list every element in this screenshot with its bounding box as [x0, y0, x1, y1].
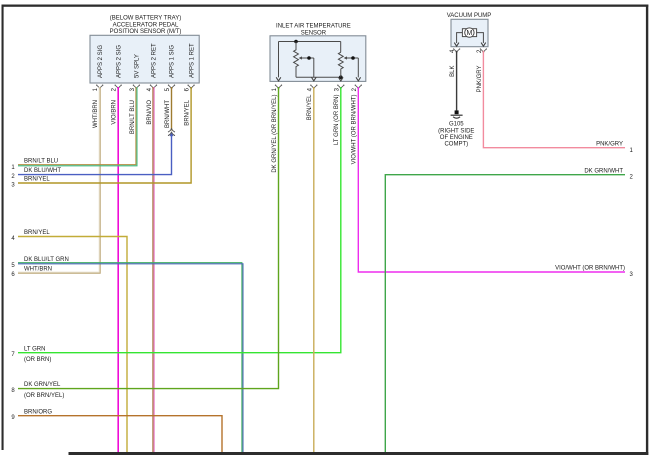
svg-text:APPS 1 SIG: APPS 1 SIG: [170, 45, 176, 78]
APPS pin 1 wire label WHT/BRN: [93, 100, 99, 128]
APPS pin 1 number: [93, 87, 99, 91]
svg-text:LT GRN: LT GRN: [24, 346, 45, 352]
wire DK BLU/WHT row2: [18, 134, 172, 174]
wire BRN/YEL IAT pin4 down: [313, 87, 315, 452]
APPS pin 1 internal label: [98, 45, 104, 78]
right label PNK/GRY: [596, 141, 633, 154]
svg-text:APPS 2 SIG: APPS 2 SIG: [116, 45, 122, 78]
IAT internal top rail: [279, 41, 341, 43]
svg-text:INLET AIR TEMPERATURE: INLET AIR TEMPERATURE: [276, 23, 351, 29]
svg-text:BRN/LT BLU: BRN/LT BLU: [130, 100, 136, 134]
svg-text:(RIGHT SIDE: (RIGHT SIDE: [438, 128, 474, 134]
IAT pin 1 number: [272, 87, 278, 91]
motor M1 symbol: [462, 28, 476, 37]
svg-text:BRN/YEL: BRN/YEL: [24, 177, 50, 183]
svg-text:(OR BRN): (OR BRN): [24, 357, 51, 363]
svg-text:LT GRN (OR BRN): LT GRN (OR BRN): [334, 95, 340, 145]
wire BRN/YEL pin6 to row3: [18, 87, 191, 183]
IAT pin1 internal wire: [276, 42, 281, 81]
IAT pin 4 number: [307, 87, 313, 91]
vacuum pump pin2 internal wire: [477, 33, 486, 47]
IAT right wiper arrow: [344, 56, 359, 59]
APPS pin 4 terminal symbol: [150, 85, 157, 90]
svg-text:BRN/VIO: BRN/VIO: [147, 100, 153, 125]
APPS pin 3 terminal symbol: [133, 85, 140, 90]
svg-text:DK GRN/YEL: DK GRN/YEL: [24, 382, 61, 388]
svg-text:VIO/WHT (OR BRN/WHT): VIO/WHT (OR BRN/WHT): [555, 266, 625, 272]
APPS pin 5 terminal symbol: [168, 85, 175, 90]
wire BLK label: [450, 66, 456, 77]
ground G105 symbol: [451, 110, 463, 118]
svg-text:DK GRN/YEL (OR BRN/YEL): DK GRN/YEL (OR BRN/YEL): [272, 95, 278, 173]
wire DK GRN/YEL row8 to IAT pin1: [18, 87, 279, 389]
node terminal 4 label: [11, 230, 50, 242]
node terminal 7 label: [11, 346, 51, 363]
node terminal 1 label: [11, 159, 58, 171]
IAT junction dot bottom: [339, 75, 343, 79]
svg-text:BRN/YEL: BRN/YEL: [24, 230, 50, 236]
node terminal 6 label: [11, 266, 52, 278]
svg-text:(OR BRN/YEL): (OR BRN/YEL): [24, 393, 64, 399]
wire VIO/BRN pin2 down: [117, 87, 119, 452]
APPS pin 6 terminal symbol: [187, 85, 194, 90]
IAT pin3 internal wire: [339, 77, 344, 81]
inlet air temperature sensor box: [270, 36, 366, 82]
wire WHT/BRN pin1 to row6: [18, 87, 100, 273]
svg-text:APPS 2 SIG: APPS 2 SIG: [98, 45, 104, 78]
node terminal 2 label: [11, 168, 61, 180]
IAT pin 2 number: [352, 87, 358, 91]
vacuum pump pin4 internal wire: [454, 33, 462, 47]
svg-text:APPS 2 RET: APPS 2 RET: [152, 43, 158, 78]
wire BRN/ORG row9 down: [18, 416, 222, 452]
APPS pin 3 wire label BRN/LT BLU: [130, 100, 136, 134]
svg-text:WHT/BRN: WHT/BRN: [24, 266, 52, 272]
wire PNK/GRY label vertical: [477, 66, 483, 93]
vacuum pump title: [447, 13, 492, 19]
APPS pin 5 number: [165, 87, 171, 91]
IAT pin4 internal wire: [312, 58, 317, 81]
IAT pin 1 wire label DK GRN/YEL (OR BRN/YEL): [272, 95, 278, 173]
svg-text:BLK: BLK: [450, 66, 456, 77]
right label VIO/WHT: [555, 266, 633, 278]
wire DK GRN/WHT right row2: [385, 175, 625, 452]
IAT pin2 internal wire: [356, 58, 361, 81]
IAT title: [276, 23, 351, 36]
right label DK GRN/WHT: [584, 168, 633, 180]
wire PNK/GRY pump pin2 to right: [483, 51, 625, 148]
IAT pin 4 wire label BRN/YEL: [307, 94, 313, 120]
IAT left wiper arrow: [299, 56, 314, 59]
APPS pin 5 internal label: [170, 45, 176, 78]
APPS pin 4 internal label: [152, 43, 158, 78]
wire BRN/YEL row4 down: [18, 237, 127, 453]
APPS pin 6 internal label: [189, 43, 195, 78]
svg-text:BRN/WHT: BRN/WHT: [165, 100, 171, 128]
IAT pin 3 wire label LT GRN (OR BRN): [334, 95, 340, 145]
svg-text:BRN/LT BLU: BRN/LT BLU: [24, 159, 58, 165]
APPS pin 6 wire label BRN/YEL: [185, 99, 191, 125]
IAT pin 4 terminal symbol: [310, 85, 317, 90]
page border bottom: [69, 452, 649, 455]
svg-text:APPS 1 RET: APPS 1 RET: [189, 43, 195, 78]
IAT pin 3 number: [334, 87, 340, 91]
svg-text:BRN/ORG: BRN/ORG: [24, 409, 52, 415]
wire DK BLU/LT GRN row5 down: [18, 263, 243, 452]
APPS pin 5 wire label BRN/WHT: [165, 100, 171, 128]
svg-text:OF ENGINE: OF ENGINE: [440, 135, 473, 141]
APPS pin 2 number: [112, 87, 118, 91]
svg-text:5V SPLY: 5V SPLY: [135, 54, 141, 78]
node terminal 5 label: [11, 257, 68, 269]
page border top: [2, 5, 649, 7]
svg-text:PNK/GRY: PNK/GRY: [477, 66, 483, 93]
APPS pin 2 terminal symbol: [115, 85, 122, 90]
svg-text:VIO/WHT (OR BRN/WHT): VIO/WHT (OR BRN/WHT): [352, 95, 358, 165]
vacuum pump pin 2 number: [477, 49, 483, 53]
svg-text:DK BLU/LT GRN: DK BLU/LT GRN: [24, 257, 69, 263]
vacuum pump pin 4 number: [450, 49, 456, 53]
svg-text:VACUUM PUMP: VACUUM PUMP: [447, 13, 492, 19]
wire BRN/WHT pin5: [171, 87, 173, 130]
wire BRN/VIO pin4 down: [153, 87, 154, 452]
svg-text:VIO/BRN: VIO/BRN: [112, 100, 118, 125]
APPS title: [110, 15, 182, 35]
APPS pin 1 terminal symbol: [96, 85, 103, 90]
node terminal 8 label: [11, 382, 64, 399]
IAT thermistor R1: [294, 42, 299, 78]
IAT left wiper junction dot: [307, 56, 311, 60]
APPS pin 2 wire label VIO/BRN: [112, 100, 118, 125]
APPS pin 3 internal label: [135, 54, 141, 78]
node terminal 3 label: [11, 177, 50, 189]
wire BRN/LT BLU pin3 to row1: [18, 87, 137, 166]
APPS pin 6 number: [185, 87, 191, 91]
vacuum pump box: [451, 19, 488, 46]
wire VIO/WHT IAT pin2 to right: [358, 87, 625, 272]
svg-text:POSITION SENSOR (M/T): POSITION SENSOR (M/T): [110, 29, 182, 35]
IAT right wiper junction dot: [351, 56, 355, 60]
svg-text:WHT/BRN: WHT/BRN: [93, 100, 99, 128]
svg-text:ACCELERATOR PEDAL: ACCELERATOR PEDAL: [113, 22, 179, 28]
svg-text:M: M: [466, 30, 472, 37]
IAT pin 2 wire label VIO/WHT (OR BRN/WHT): [352, 95, 358, 165]
APPS pin 4 wire label BRN/VIO: [147, 100, 153, 125]
vacuum pump pin 4 terminal symbol: [453, 48, 460, 53]
APPS pin 4 number: [147, 87, 153, 91]
APPS pin 2 internal label: [116, 45, 122, 78]
IAT pin 3 terminal symbol: [337, 85, 344, 90]
splice connector S1: [168, 128, 175, 136]
connector APPS accelerator pedal position sensor box: [90, 35, 199, 83]
node terminal 9 label: [11, 409, 52, 421]
svg-text:(BELOW BATTERY TRAY): (BELOW BATTERY TRAY): [110, 15, 181, 21]
IAT pin 2 terminal symbol: [355, 85, 362, 90]
svg-text:COMPT): COMPT): [444, 142, 468, 148]
page border left: [2, 5, 4, 451]
wire LT GRN row7 to IAT pin3: [18, 87, 341, 353]
IAT pin 1 terminal symbol: [275, 85, 282, 90]
svg-text:DK GRN/WHT: DK GRN/WHT: [584, 168, 623, 174]
APPS pin 3 number: [130, 87, 136, 91]
ground G105 text: [438, 121, 474, 147]
svg-text:BRN/YEL: BRN/YEL: [307, 94, 313, 120]
svg-text:BRN/YEL: BRN/YEL: [185, 99, 191, 125]
IAT junction dot top: [294, 40, 298, 44]
wire BLK: [456, 51, 458, 111]
svg-text:G105: G105: [449, 121, 464, 127]
page border right: [646, 5, 648, 456]
IAT internal bottom rail: [296, 76, 341, 78]
svg-text:SENSOR: SENSOR: [301, 30, 327, 36]
vacuum pump pin 2 terminal symbol: [480, 48, 487, 53]
IAT thermistor R2: [338, 42, 343, 78]
svg-text:PNK/GRY: PNK/GRY: [596, 141, 623, 147]
svg-text:DK BLU/WHT: DK BLU/WHT: [24, 168, 61, 174]
